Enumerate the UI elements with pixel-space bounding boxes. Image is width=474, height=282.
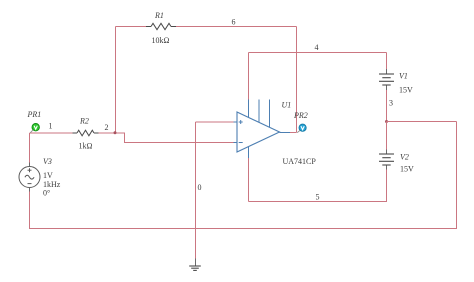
svg-text:5: 5	[316, 193, 320, 202]
op-amp U1 input pin stubs	[234, 121, 238, 123]
svg-text:15V: 15V	[400, 165, 414, 174]
source V3 lower lead	[29, 188, 31, 192]
battery V2	[379, 154, 394, 165]
resistor R1	[146, 23, 176, 29]
battery V1	[379, 74, 394, 85]
svg-text:4: 4	[315, 43, 319, 52]
wire net3 horizontal to right rail	[387, 121, 457, 123]
svg-text:R2: R2	[79, 117, 89, 126]
svg-text:0: 0	[198, 183, 202, 192]
wire net4 vertical from pin7	[248, 53, 250, 100]
resistor R2	[73, 130, 99, 136]
svg-text:2: 2	[105, 123, 109, 132]
svg-text:0°: 0°	[43, 189, 50, 198]
battery V2 leads	[386, 122, 388, 150]
wire net0 ground horizontal to non-inverting input	[196, 121, 234, 123]
ground lead	[195, 259, 197, 266]
svg-text:15V: 15V	[399, 86, 413, 95]
wire right rail vertical	[456, 122, 458, 230]
svg-text:V3: V3	[43, 157, 52, 166]
svg-text:1: 1	[49, 122, 53, 131]
wire net4 horizontal to V1	[249, 52, 387, 54]
svg-text:10kΩ: 10kΩ	[152, 36, 170, 45]
probe PR2 tail	[297, 131, 300, 133]
op-amp plus sign	[239, 120, 243, 124]
op-amp pin7 stub top	[248, 100, 250, 118]
svg-text:PR1: PR1	[27, 110, 42, 119]
node 3 junction dot	[385, 120, 388, 123]
op-amp U1	[237, 112, 280, 152]
node 2 junction dot	[114, 131, 117, 134]
wire net6 left vertical down to node 2	[115, 27, 117, 134]
svg-text:V2: V2	[400, 153, 409, 162]
probe PR2	[299, 124, 306, 131]
svg-text:6: 6	[232, 18, 236, 27]
svg-text:1kΩ: 1kΩ	[79, 142, 93, 151]
source V3	[19, 167, 40, 188]
op-amp pin4 stub bottom	[248, 147, 250, 158]
svg-text:R1: R1	[154, 11, 164, 20]
wire net3 vertical V1 to junction	[386, 90, 388, 122]
svg-text:3: 3	[389, 99, 393, 108]
wire bottom rail horizontal	[30, 228, 457, 230]
probe PR1 tail	[30, 130, 33, 133]
svg-text:UA741CP: UA741CP	[283, 157, 317, 166]
wire net6 top horizontal left of R1	[116, 26, 147, 28]
op-amp output stub pin6	[280, 132, 291, 134]
op-amp minus sign	[239, 142, 243, 144]
wire net5 horizontal to V2	[249, 201, 387, 203]
op-amp offset null stub pin5	[269, 100, 271, 128]
wire net6 right vertical down to op-amp output	[296, 27, 298, 133]
wire net6 top horizontal right of R1	[176, 26, 297, 28]
source V3 upper lead	[29, 133, 31, 163]
wire net1 from V3 to R2	[30, 132, 73, 134]
svg-text:PR2: PR2	[293, 111, 308, 120]
svg-text:V1: V1	[399, 72, 408, 81]
wire net2 from R2 to junction	[99, 132, 116, 134]
wire net0 ground vertical	[195, 122, 197, 259]
wire output to net6 vertical	[290, 132, 297, 134]
battery V1 leads	[386, 53, 388, 70]
wire V2 bottom to net5	[386, 170, 388, 203]
svg-text:1V: 1V	[43, 171, 53, 180]
wire net5 vertical from pin4	[248, 158, 250, 202]
svg-text:U1: U1	[282, 101, 292, 110]
wire net2 step to inverting input	[116, 133, 234, 143]
op-amp offset null stub pin1	[258, 100, 260, 123]
probe PR1	[32, 124, 39, 131]
ground	[189, 266, 201, 270]
